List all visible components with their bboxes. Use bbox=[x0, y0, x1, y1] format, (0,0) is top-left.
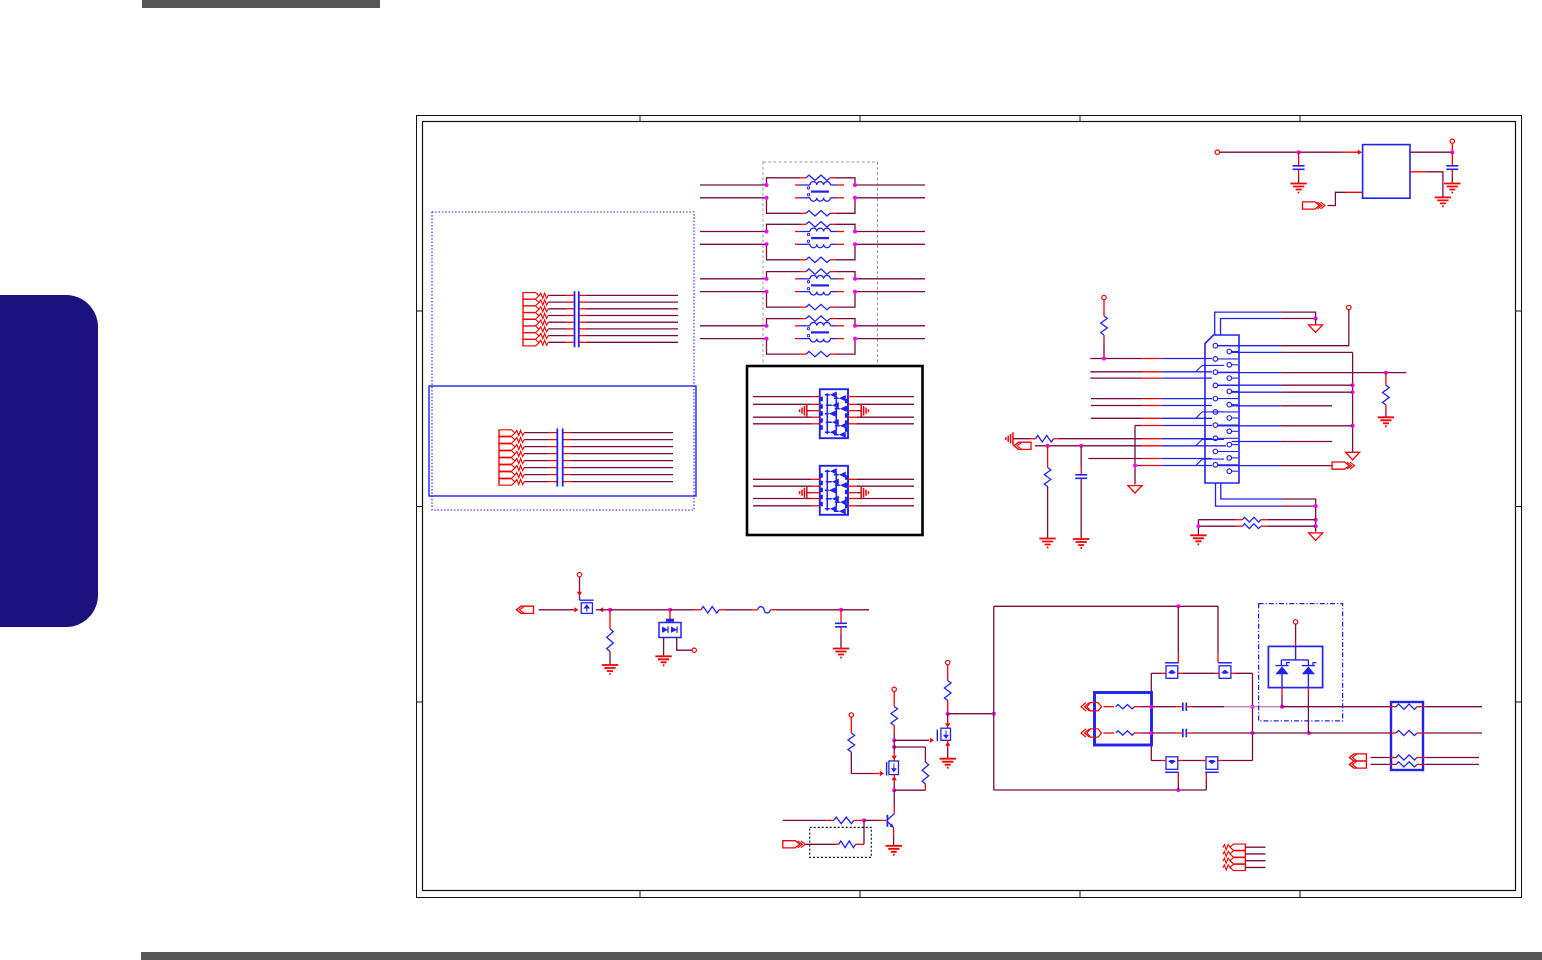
surge protector body bbox=[1268, 646, 1322, 687]
module input connector B bbox=[1081, 729, 1090, 737]
choke T4 bottom bypass resistor loop bbox=[767, 339, 801, 355]
junction dot out bbox=[1450, 150, 1454, 154]
choke T3 core bar bbox=[811, 284, 829, 286]
chassis ground row L8 bbox=[1006, 432, 1013, 445]
ground below Q2 bbox=[940, 759, 956, 768]
capacitor C-in bbox=[1298, 152, 1300, 165]
resistor pack RP upper element 7 bbox=[523, 333, 539, 339]
small pack wire 4 bbox=[1245, 866, 1265, 868]
resistor pack RP upper element 8 bbox=[523, 340, 539, 346]
pass MOSFET Q5 bbox=[577, 573, 581, 577]
module resistor A bbox=[1104, 706, 1109, 708]
wire from pack RP lower element 2 bbox=[524, 439, 548, 441]
termination resistor right bbox=[1385, 373, 1387, 386]
surge protector right lead bbox=[1307, 688, 1309, 696]
MOSFET Q3 gate chain lower bbox=[850, 752, 852, 774]
bottom rows left drop to gnd bbox=[1197, 520, 1199, 535]
capacitor C-out bbox=[1451, 152, 1453, 165]
coupling wire A with capacitor bbox=[1151, 706, 1176, 708]
decoupling capacitor after bead bbox=[840, 610, 842, 623]
surge protector internal SCRs bbox=[1281, 646, 1308, 665]
ESD array U1 pin tabs bbox=[821, 397, 846, 432]
output transformer winding 1 bbox=[1388, 706, 1396, 708]
choke T3 junction dots bbox=[765, 277, 769, 281]
BJT Q4 emitter to gnd bbox=[893, 828, 895, 836]
ground below middle pin bbox=[1435, 197, 1451, 206]
BJT Q4 bbox=[886, 815, 888, 827]
choke T1 windings bbox=[795, 184, 800, 186]
RJ45 right wire R5 stub bbox=[1232, 405, 1282, 407]
choke T2 right wires bbox=[855, 231, 925, 233]
RJ45 left wire row R6 bbox=[1091, 417, 1142, 419]
wire from pack RP upper element 7 bbox=[548, 335, 566, 337]
RJ45 bottom wires bbox=[1282, 499, 1315, 532]
RJ45 right wire L3 long bbox=[1218, 372, 1282, 374]
small pack wire 2 bbox=[1245, 853, 1265, 855]
small pack element 4 bbox=[1230, 864, 1245, 870]
resistor R-Q2 drain bbox=[944, 681, 951, 701]
ESD array U1 pass-through wires bbox=[753, 396, 812, 398]
bridge MOSFET Q7 channel pins bbox=[1215, 672, 1220, 674]
pulldown resistor R after FET bbox=[609, 610, 611, 629]
bottom gray footer bar bbox=[141, 952, 1542, 960]
bottom resistor row 2 bbox=[1198, 525, 1235, 527]
feedback resistor bbox=[806, 843, 836, 845]
common-mode choke T4 left wires bbox=[700, 325, 767, 327]
power rail bottom bbox=[994, 789, 1207, 791]
resistor pack RP lower element 4 bbox=[499, 451, 515, 457]
dashed blue box surge protector bbox=[1259, 604, 1343, 721]
RJ45 left wire row L2 bbox=[1090, 358, 1142, 360]
resistor pack RP upper element 1 bbox=[523, 293, 539, 299]
choke T1 core bar bbox=[811, 191, 829, 193]
dashed gray box around choke array bbox=[763, 162, 878, 366]
bus capacitor lines RP upper bbox=[575, 291, 579, 347]
upper-right bridge MOSFET Q7 gate lead bbox=[1217, 606, 1219, 654]
pulldown resistor at 1047 bbox=[1047, 446, 1049, 468]
choke T2 top bypass resistor loop bbox=[767, 224, 801, 231]
common-mode choke T3 left wires bbox=[700, 278, 767, 280]
output transformer winding 4 bbox=[1388, 763, 1396, 765]
output transformer box bbox=[1391, 702, 1423, 770]
wire from pack RP lower element 4 bbox=[524, 453, 548, 455]
ESD array U2 pass-through wires bbox=[753, 478, 812, 480]
net connector arrow power in bbox=[517, 606, 534, 613]
RJ45 right wire R1 to gnd rail bbox=[1232, 351, 1282, 353]
resistor pack RP lower element 3 bbox=[499, 444, 515, 450]
top gray header bar bbox=[142, 0, 380, 8]
gate wire to Q2 bbox=[894, 739, 929, 741]
choke T2 windings bbox=[795, 231, 800, 233]
net connector arrow right of RJ45 bbox=[1332, 462, 1349, 469]
junction dot bbox=[1297, 150, 1301, 154]
resistor pack RP lower element 8 bbox=[499, 479, 515, 485]
resistor pack RP upper element 5 bbox=[523, 319, 539, 325]
choke T1 bottom bypass resistor loop bbox=[767, 198, 801, 214]
regulator middle pin wire bbox=[1410, 171, 1427, 173]
upper bridge channel wire bbox=[1151, 672, 1161, 674]
wire Q2 drain junction to rail bbox=[948, 713, 994, 715]
small pack element 2 bbox=[1230, 851, 1245, 857]
MOSFET Q2 bbox=[947, 714, 949, 723]
choke T3 top bypass resistor loop bbox=[767, 272, 801, 279]
black box around ESD protection bbox=[747, 366, 923, 535]
RJ45 internal pin stub lines bbox=[1218, 345, 1238, 347]
RJ45 bottom blue stub 2 bbox=[1216, 483, 1283, 506]
RJ45 top blue stub 2 bbox=[1221, 319, 1282, 336]
net connector arrow EN bbox=[1303, 202, 1320, 209]
wire from pack RP upper element 8 bbox=[548, 341, 566, 343]
common-mode choke T2 left wires bbox=[700, 231, 767, 233]
RJ45 top blue stub 1 bbox=[1215, 312, 1282, 335]
terminal circle at RJ45 top bbox=[1347, 305, 1351, 309]
shield gnd triangle top bbox=[1309, 325, 1323, 333]
RJ45 right wire L7 bbox=[1218, 425, 1282, 427]
regulator enable pin wire bbox=[1345, 191, 1363, 193]
wire regulator output bbox=[1410, 151, 1452, 153]
MOSFET Q3 bbox=[893, 747, 895, 752]
lower bridge channel wire bbox=[1151, 760, 1161, 762]
parallel resistor across Q3 bbox=[894, 746, 925, 748]
ESD array U2 right chassis ground bbox=[848, 492, 856, 494]
small pack wire 1 bbox=[1245, 846, 1265, 848]
bridge MOSFET Q9 channel pins bbox=[1201, 760, 1206, 762]
solid blue box lower group bbox=[429, 386, 696, 496]
surge protector left lead bbox=[1281, 688, 1283, 696]
choke T1 right wires bbox=[855, 184, 925, 186]
RJ45 right wire L10 to net arrow bbox=[1218, 465, 1282, 467]
pull-up resistor R-top at RJ45 bbox=[1102, 295, 1106, 299]
bridge MOSFET body Q9 bbox=[1205, 771, 1219, 773]
upper-left bridge MOSFET Q6 gate lead bbox=[1177, 606, 1179, 654]
RJ45 right wire R8 stub bbox=[1232, 441, 1282, 443]
net connector arrow row R8 bbox=[1014, 442, 1031, 449]
BJT base resistor bbox=[783, 819, 826, 821]
resistor pack RP upper element 4 bbox=[523, 313, 539, 319]
choke T3 windings bbox=[795, 278, 800, 280]
filter capacitor at 1081 bbox=[1080, 446, 1082, 467]
wire from pack RP upper element 2 bbox=[548, 301, 566, 303]
bridge MOSFET body Q6 bbox=[1165, 662, 1179, 664]
row R8 wire and junctions bbox=[1046, 444, 1050, 448]
wire from pack RP upper element 1 bbox=[548, 294, 566, 296]
series resistor on power row bbox=[670, 609, 695, 611]
wire from pack RP lower element 8 bbox=[524, 481, 548, 483]
ESD array U1 internal diodes bbox=[829, 392, 847, 438]
choke T4 right wires bbox=[855, 325, 925, 327]
lower-left bridge MOSFET Q8 gate lead bbox=[1177, 782, 1179, 790]
common-mode choke T1 left wires bbox=[700, 184, 767, 186]
ESD diode array U2 body bbox=[820, 466, 848, 515]
bridge MOSFET body Q8 bbox=[1165, 771, 1179, 773]
output wires right bbox=[1426, 706, 1482, 708]
MOSFET Q3 gate chain bbox=[849, 713, 853, 717]
RJ45 left wire row R3 bbox=[1090, 377, 1142, 379]
diode D1 left lead to gnd bbox=[663, 638, 665, 656]
base junction drop bbox=[863, 820, 865, 844]
bridge MOSFET Q8 channel pins bbox=[1161, 760, 1166, 762]
choke T3 bottom bypass resistor loop bbox=[767, 292, 801, 308]
RJ45 left wire row L8 bbox=[1059, 438, 1142, 440]
frame zone tick marks bbox=[639, 116, 641, 898]
bias resistor R-top bbox=[891, 707, 898, 726]
regulator U7 body bbox=[1363, 145, 1410, 199]
RJ45 right wire R4 bbox=[1232, 391, 1282, 393]
output transformer left wires 3/4 bbox=[1371, 757, 1389, 759]
gnd drop vertical at x1135 bbox=[1134, 426, 1136, 485]
ground below C-out bbox=[1444, 184, 1460, 193]
RJ45 left wire row L5 bbox=[1091, 398, 1142, 400]
module resistor B bbox=[1104, 732, 1115, 734]
wire from pack RP lower element 1 bbox=[524, 432, 548, 434]
choke T4 junction dots bbox=[765, 324, 769, 328]
wire from pack RP lower element 6 bbox=[524, 467, 548, 469]
choke T2 phase dots bbox=[807, 233, 809, 235]
output connector arrows bbox=[1349, 754, 1366, 761]
diode D1 right lead to terminal bbox=[677, 638, 692, 651]
dashed blue box around LAN magnetics section bbox=[432, 212, 694, 510]
power rail box left edge bbox=[993, 606, 995, 790]
choke T4 top bypass resistor loop bbox=[767, 319, 801, 326]
output transformer winding 3 bbox=[1388, 757, 1396, 759]
outer frame border bbox=[417, 116, 1522, 898]
wire from pack RP upper element 5 bbox=[548, 321, 566, 323]
wire from pack RP upper element 4 bbox=[548, 315, 566, 317]
terminal circle J-in bbox=[1215, 150, 1219, 154]
wire from pack RP lower element 3 bbox=[524, 446, 548, 448]
resistor pack RP upper bbox=[522, 292, 524, 346]
bridge MOSFET Q6 channel pins bbox=[1161, 672, 1166, 674]
small pack element 1 bbox=[1230, 844, 1245, 850]
choke T3 phase dots bbox=[807, 281, 809, 283]
bottom resistor row 1 bbox=[1198, 519, 1235, 521]
choke T2 core bar bbox=[811, 237, 829, 239]
wire from pack RP lower element 5 bbox=[524, 460, 548, 462]
bus capacitor lines RP lower bbox=[557, 429, 562, 487]
wire from pack RP upper element 6 bbox=[548, 328, 566, 330]
RJ45 right wire L1 blue part bbox=[1218, 345, 1282, 347]
choke T2 junction dots bbox=[765, 230, 769, 234]
wire from pack RP lower element 7 bbox=[524, 474, 548, 476]
resistor pack RP lower element 7 bbox=[499, 472, 515, 478]
RJ45 right wire L4 bbox=[1218, 384, 1282, 386]
wire input to regulator bbox=[1220, 151, 1299, 153]
ground below C-in bbox=[1290, 184, 1306, 193]
RJ45 top wires to shield gnd bbox=[1281, 312, 1315, 318]
resistor pack RP lower bbox=[498, 430, 500, 486]
small pack wire 3 bbox=[1245, 860, 1265, 862]
terminal circle surge top bbox=[1293, 620, 1297, 624]
coupling wire B with capacitor bbox=[1151, 732, 1176, 734]
ferrite bead FB bbox=[752, 609, 758, 611]
ESD array U2 pin tabs bbox=[821, 473, 846, 508]
choke T4 phase dots bbox=[807, 328, 809, 330]
choke T1 top bypass resistor loop bbox=[767, 178, 801, 185]
RJ45 left wire jog diagonals bbox=[1196, 365, 1224, 371]
net connector arrow feedback bbox=[783, 841, 800, 848]
dotted box around feedback resistor bbox=[810, 827, 872, 857]
RJ45 bottom blue stub 1 bbox=[1221, 483, 1283, 499]
choke T2 bottom bypass resistor loop bbox=[767, 244, 801, 259]
choke T4 windings bbox=[795, 325, 800, 327]
bridge vertical junction dots bbox=[1149, 705, 1153, 709]
resistor pack RP upper element 6 bbox=[523, 326, 539, 332]
ESD diode array U1 body bbox=[820, 389, 848, 438]
resistor pack RP upper element 3 bbox=[523, 306, 539, 312]
BJT Q4 collector bbox=[893, 790, 895, 806]
series resistor row L8 bbox=[1036, 435, 1054, 442]
bridge right vertical bbox=[1252, 673, 1254, 760]
dual diode D1 bbox=[669, 610, 671, 623]
choke T3 right wires bbox=[855, 278, 925, 280]
ESD array U1 left chassis ground bbox=[800, 404, 807, 417]
resistor pack RP lower element 6 bbox=[499, 465, 515, 471]
choke T4 core bar bbox=[811, 331, 829, 333]
terminal circle bias bbox=[892, 687, 896, 691]
RJ45 pin circles left column bbox=[1213, 343, 1218, 348]
output transformer winding 2 bbox=[1388, 732, 1396, 734]
gnd triangle below right rail bbox=[1346, 452, 1360, 460]
ESD array U2 internal diodes bbox=[829, 468, 847, 514]
left navy sidebar tab bbox=[0, 295, 98, 627]
RJ45 connector J1 body bbox=[1205, 335, 1239, 483]
RJ45 left wire row L7 from gnd stub bbox=[1135, 425, 1142, 427]
transformer module box bbox=[1095, 693, 1152, 746]
RJ45 pin circles right column bbox=[1227, 349, 1232, 354]
choke T1 junction dots bbox=[765, 183, 769, 187]
small resistor pack bottom right bbox=[1244, 844, 1246, 871]
wire after FET bbox=[596, 609, 610, 611]
resistor pack RP lower element 2 bbox=[499, 437, 515, 443]
wire from pack RP upper element 3 bbox=[548, 308, 566, 310]
RJ45 left wire row R9 bbox=[1088, 458, 1142, 460]
RJ45 left wire row L10 bbox=[1135, 465, 1142, 467]
RJ45 left wire row R8 bbox=[1035, 445, 1142, 447]
ESD array U1 right chassis ground bbox=[848, 410, 856, 412]
terminal circle Q2 supply bbox=[946, 660, 950, 664]
inner frame border bbox=[423, 122, 1516, 891]
small pack element 3 bbox=[1230, 858, 1245, 864]
module input connector A bbox=[1081, 703, 1090, 711]
resistor pack RP lower element 5 bbox=[499, 458, 515, 464]
RJ45 left wire row R5 bbox=[1091, 405, 1142, 407]
bridge MOSFET body Q7 bbox=[1218, 662, 1232, 664]
resistor pack RP upper element 2 bbox=[523, 299, 539, 305]
gnd triangle below RJ45 bottom rail bbox=[1309, 533, 1323, 541]
ESD array U2 left chassis ground bbox=[800, 486, 807, 499]
terminal circle out bbox=[1450, 139, 1454, 143]
lower-right bridge MOSFET Q9 gate lead bbox=[1205, 782, 1207, 790]
resistor pack RP lower element 1 bbox=[499, 430, 515, 436]
RJ45 left wire row L3 bbox=[1090, 371, 1142, 373]
choke T1 phase dots bbox=[807, 187, 809, 189]
bridge left vertical bbox=[1150, 673, 1152, 760]
wire to pass FET bbox=[539, 609, 575, 611]
power rail top bbox=[994, 605, 1218, 607]
